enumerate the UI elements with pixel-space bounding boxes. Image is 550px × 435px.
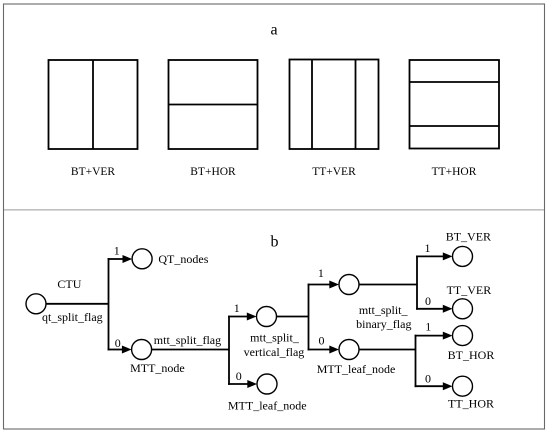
square BT+VER vertical split line bbox=[92, 60, 94, 149]
node mtt_split_vertical_flag bbox=[257, 307, 277, 327]
svg-text:BT_VER: BT_VER bbox=[446, 230, 491, 244]
wire junction1 vertical bbox=[108, 258, 110, 350]
node BT_HOR bbox=[453, 326, 473, 346]
svg-text:TT_VER: TT_VER bbox=[447, 283, 492, 297]
svg-text:MTT_leaf_node: MTT_leaf_node bbox=[228, 398, 307, 412]
svg-text:0: 0 bbox=[319, 333, 325, 347]
node BT_VER bbox=[453, 246, 473, 266]
svg-text:QT_nodes: QT_nodes bbox=[158, 252, 208, 266]
svg-text:b: b bbox=[271, 234, 279, 251]
wire branch 0 to MTT_leaf_node mid bbox=[308, 349, 331, 351]
wire branch 0 to MTT_leaf_node left bbox=[228, 383, 248, 385]
svg-text:0: 0 bbox=[115, 336, 121, 350]
node MTT_leaf_node mid bbox=[339, 340, 359, 360]
wire vertical_flag node to junction3 bbox=[276, 316, 309, 318]
wire binary VER node to junction4 bbox=[359, 284, 418, 286]
svg-text:qt_split_flag: qt_split_flag bbox=[42, 310, 103, 324]
svg-text:mtt_split_: mtt_split_ bbox=[250, 330, 300, 344]
arrow to MTT_leaf_node mid bbox=[329, 346, 339, 354]
svg-text:TT+HOR: TT+HOR bbox=[432, 166, 477, 178]
square TT+HOR lower split line bbox=[410, 125, 500, 127]
square TT+HOR upper split line bbox=[410, 81, 500, 83]
svg-text:TT_HOR: TT_HOR bbox=[448, 396, 494, 410]
wire branch 1 to vertical_flag node bbox=[228, 316, 248, 318]
svg-text:MTT_node: MTT_node bbox=[130, 361, 185, 375]
node QT_nodes bbox=[132, 249, 152, 269]
node MTT_leaf_node left bbox=[257, 374, 277, 394]
wire branch 0 to TT_VER bbox=[416, 308, 444, 310]
wire junction4 vertical bbox=[416, 256, 418, 310]
square TT+VER outline bbox=[290, 60, 379, 150]
node root CTU bbox=[26, 294, 46, 314]
square TT+VER right split line bbox=[355, 60, 357, 150]
wire branch 0 to TT_HOR bbox=[415, 385, 444, 387]
wire MTT_leaf_node mid to junction5 bbox=[359, 349, 416, 351]
square TT+HOR outline bbox=[410, 60, 500, 149]
svg-text:1: 1 bbox=[425, 241, 431, 255]
svg-text:binary_flag: binary_flag bbox=[356, 317, 411, 331]
node binary VER bbox=[339, 275, 359, 295]
square BT+HOR outline bbox=[169, 60, 258, 149]
square BT+VER outline bbox=[49, 60, 138, 149]
wire junction3 vertical bbox=[308, 284, 310, 351]
wire junction5 vertical bbox=[415, 335, 417, 387]
panel divider bbox=[4, 209, 544, 211]
arrow to vertical_flag node bbox=[247, 313, 257, 321]
svg-text:1: 1 bbox=[318, 266, 324, 280]
node MTT_node bbox=[132, 340, 152, 360]
arrow to TT_HOR bbox=[443, 382, 453, 390]
arrow to BT_VER bbox=[443, 252, 453, 260]
arrow to BT_HOR bbox=[443, 332, 453, 340]
square TT+VER left split line bbox=[311, 60, 313, 150]
wire branch 1 to binary VER node bbox=[308, 284, 331, 286]
arrow to TT_VER bbox=[443, 305, 453, 313]
svg-text:BT+HOR: BT+HOR bbox=[190, 166, 236, 178]
svg-text:a: a bbox=[270, 22, 277, 39]
square BT+HOR horizontal split line bbox=[169, 104, 258, 106]
wire branch 1 to BT_VER bbox=[416, 255, 444, 257]
svg-text:0: 0 bbox=[236, 369, 242, 383]
svg-text:0: 0 bbox=[425, 294, 431, 308]
svg-text:1: 1 bbox=[425, 320, 431, 334]
svg-text:mtt_split_flag: mtt_split_flag bbox=[154, 333, 221, 347]
arrow to binary VER node bbox=[329, 281, 339, 289]
wire MTT_node to junction2 bbox=[152, 349, 229, 351]
wire root to junction1 bbox=[46, 303, 109, 305]
node TT_VER bbox=[453, 299, 473, 319]
arrow to MTT_node bbox=[122, 346, 132, 354]
wire branch 1 to QT_nodes bbox=[108, 258, 123, 260]
svg-text:1: 1 bbox=[234, 301, 240, 315]
svg-text:BT_HOR: BT_HOR bbox=[448, 348, 495, 362]
arrow to QT_nodes bbox=[123, 255, 133, 263]
svg-text:mtt_split_: mtt_split_ bbox=[359, 303, 409, 317]
wire branch 1 to BT_HOR bbox=[415, 335, 444, 337]
wire junction2 vertical bbox=[228, 316, 230, 385]
arrow to MTT_leaf_node left bbox=[247, 380, 257, 388]
svg-text:1: 1 bbox=[114, 244, 120, 258]
svg-text:CTU: CTU bbox=[57, 277, 81, 291]
svg-text:0: 0 bbox=[425, 371, 431, 385]
svg-text:vertical_flag: vertical_flag bbox=[244, 345, 305, 359]
svg-text:TT+VER: TT+VER bbox=[312, 166, 356, 178]
svg-text:MTT_leaf_node: MTT_leaf_node bbox=[317, 362, 396, 376]
wire branch 0 to MTT_node bbox=[108, 349, 122, 351]
svg-text:BT+VER: BT+VER bbox=[71, 166, 116, 178]
node TT_HOR bbox=[453, 376, 473, 396]
